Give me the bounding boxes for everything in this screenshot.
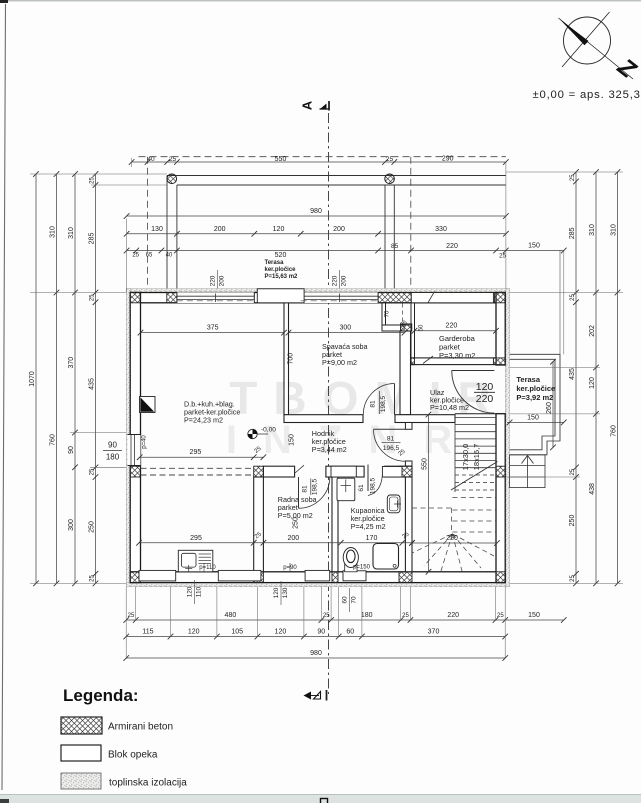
- concrete block south wall pier kup-west: [332, 572, 338, 583]
- svg-text:40: 40: [147, 156, 155, 163]
- dashed line across window W1: [177, 300, 254, 302]
- concrete block kupaonica NE pier: [399, 466, 412, 477]
- concrete block NW corner: [130, 293, 140, 303]
- door kupaonica (61/198,5): [368, 465, 382, 496]
- svg-text:180: 180: [361, 612, 373, 619]
- svg-text:17x30,0: 17x30,0: [461, 444, 470, 471]
- window south S4 (kupaonica 60/70): [343, 571, 366, 581]
- svg-text:1070: 1070: [29, 371, 36, 387]
- svg-text:105: 105: [231, 629, 243, 636]
- svg-text:120: 120: [187, 586, 194, 597]
- svg-text:198,5: 198,5: [370, 477, 377, 494]
- svg-text:700: 700: [288, 353, 295, 365]
- svg-text:220: 220: [446, 243, 458, 250]
- section marker A bottom: [304, 690, 327, 701]
- svg-text:Terasa: Terasa: [516, 375, 540, 384]
- svg-text:480: 480: [225, 612, 237, 619]
- svg-text:Armirani beton: Armirani beton: [108, 722, 173, 733]
- dim row rowA bottom: [123, 612, 540, 623]
- bottom small square mark: [321, 799, 328, 803]
- svg-text:120: 120: [273, 587, 280, 598]
- insulation south band: [126, 583, 509, 587]
- svg-text:p=40: p=40: [142, 435, 148, 449]
- svg-text:120: 120: [275, 629, 287, 636]
- column C1: [167, 174, 177, 184]
- door hodnik-ulaz (81/196,5): [374, 429, 406, 461]
- window north W2 (220/200): [301, 292, 378, 303]
- svg-text:220: 220: [447, 612, 459, 619]
- dashed opening D.b./radna: [141, 467, 254, 469]
- svg-text:310: 310: [589, 224, 596, 236]
- dim row row4 detail: [124, 243, 567, 260]
- svg-text:980: 980: [310, 650, 322, 657]
- dim line left 310-760: [49, 171, 59, 586]
- insulation east band: [505, 289, 509, 587]
- svg-text:61: 61: [358, 484, 365, 492]
- insulation north band: [126, 289, 509, 293]
- svg-text:198,5: 198,5: [312, 478, 319, 495]
- svg-text:980: 980: [310, 208, 322, 215]
- svg-text:550: 550: [275, 156, 287, 163]
- svg-text:370: 370: [68, 357, 75, 369]
- dim row rowC 980: [123, 650, 508, 661]
- WC toilet: [343, 548, 358, 572]
- svg-text:81: 81: [370, 400, 377, 408]
- hodnik wall white box 1: [331, 466, 356, 477]
- steps up arrow: [522, 456, 534, 464]
- west wall: [130, 293, 140, 583]
- svg-text:120: 120: [273, 226, 285, 233]
- svg-text:25: 25: [386, 156, 394, 163]
- svg-text:18x16,7: 18x16,7: [472, 444, 481, 471]
- svg-text:435: 435: [88, 378, 95, 390]
- dim row 375 spavaca-db: [138, 325, 287, 336]
- concrete block south wall pier kup-east: [399, 572, 412, 583]
- svg-text:150: 150: [527, 415, 539, 422]
- concrete block niche pier: [401, 324, 412, 331]
- svg-text:25: 25: [89, 177, 95, 184]
- svg-text:A: A: [300, 100, 315, 110]
- svg-text:370: 370: [428, 629, 440, 636]
- svg-text:toplinska izolacija: toplinska izolacija: [109, 778, 187, 789]
- svg-text:550: 550: [421, 458, 428, 470]
- svg-text:300: 300: [68, 519, 75, 531]
- window south S2: [218, 570, 261, 581]
- page top edge line: [0, 0, 641, 2]
- section axis line A-A: [328, 113, 330, 694]
- door radna soba (81/198,5): [295, 465, 330, 508]
- wall stub niche west: [382, 303, 386, 325]
- wall garderoba south: [411, 358, 496, 365]
- east terrace outline: [510, 354, 560, 455]
- svg-text:60: 60: [342, 596, 349, 604]
- wall hodnik east upper: [405, 423, 412, 430]
- svg-text:170: 170: [366, 535, 378, 542]
- svg-text:196,5: 196,5: [383, 445, 400, 452]
- dim row row1 terrace: [129, 156, 509, 165]
- kitchen counter with sink: [178, 550, 213, 572]
- svg-text:±0,00 = aps. 325,30: ±0,00 = aps. 325,30: [533, 89, 641, 101]
- svg-text:Terasa: Terasa: [265, 260, 285, 266]
- concrete block radna west wall head: [254, 466, 264, 477]
- wall hodnik north, east part: [395, 415, 455, 423]
- hodnik wall white box 2 (bath cabinet): [382, 467, 402, 478]
- dim row db 295: [137, 449, 266, 460]
- svg-text:150: 150: [289, 434, 296, 446]
- svg-text:25: 25: [323, 613, 330, 619]
- svg-text:115: 115: [142, 629, 153, 636]
- svg-text:375: 375: [207, 325, 219, 332]
- north wall white block garderoba: [411, 293, 493, 303]
- svg-text:70: 70: [385, 310, 391, 317]
- svg-text:90: 90: [68, 446, 75, 454]
- svg-text:81: 81: [387, 436, 395, 443]
- north wall: [130, 293, 505, 303]
- elevation marker +-0,00: [248, 429, 268, 438]
- niche dashed shelf: [401, 304, 403, 325]
- east wall lower: [496, 414, 505, 583]
- svg-text:ker.pločice: ker.pločice: [516, 384, 555, 393]
- wall hodnik east lower: [405, 461, 412, 466]
- svg-text:P=9,00 m2: P=9,00 m2: [322, 358, 357, 367]
- svg-text:25: 25: [402, 613, 409, 619]
- svg-text:220: 220: [210, 275, 217, 286]
- svg-text:120: 120: [589, 377, 596, 389]
- east terrace dim 150: [507, 421, 564, 423]
- winder stairs dashed fan: [412, 498, 496, 572]
- insulation west band: [126, 289, 130, 587]
- svg-text:250: 250: [569, 515, 576, 527]
- page left edge line: [2, 4, 6, 790]
- svg-text:25: 25: [89, 575, 95, 582]
- svg-text:200: 200: [287, 535, 299, 542]
- svg-text:P=3,44 m2: P=3,44 m2: [312, 445, 347, 454]
- legend blok opeka swatch: [61, 745, 101, 761]
- concrete block east wall stair pier: [496, 466, 505, 477]
- svg-text:25: 25: [570, 575, 576, 582]
- washbasin / washing machine: [337, 478, 355, 501]
- svg-text:P=4,25 m2: P=4,25 m2: [351, 522, 386, 531]
- column left support lines: [166, 176, 168, 293]
- extension lines: [30, 158, 623, 658]
- legend toplinska izolacija swatch: [61, 773, 101, 789]
- dim line stair 550: [421, 412, 431, 575]
- svg-text:295: 295: [190, 449, 202, 456]
- wall hodnik north / spavaca south, west part: [284, 415, 363, 423]
- terrace dashed west edge: [147, 157, 149, 293]
- svg-text:202: 202: [589, 325, 596, 337]
- svg-text:310: 310: [610, 224, 617, 236]
- dim row 300 spavaca: [286, 325, 408, 336]
- svg-text:25: 25: [570, 174, 576, 181]
- dim row south inner row: [136, 535, 415, 546]
- concrete block NE corner: [495, 293, 506, 303]
- east wall upper: [496, 293, 505, 366]
- exterior steps east: [510, 455, 545, 488]
- svg-text:50: 50: [418, 324, 424, 331]
- svg-text:P=3,92 m2: P=3,92 m2: [516, 393, 553, 402]
- wall radna/kupaonica: [332, 477, 338, 572]
- concrete block garderoba wall east pier: [493, 358, 505, 365]
- svg-text:P=24,23 m2: P=24,23 m2: [184, 416, 223, 425]
- concrete block south wall pier radna: [254, 572, 264, 583]
- svg-text:P=10,48 m2: P=10,48 m2: [430, 403, 469, 412]
- dim line right 25-285...: [569, 169, 579, 586]
- dim line right 310-760: [610, 169, 620, 586]
- svg-text:25: 25: [89, 468, 95, 475]
- svg-text:200: 200: [219, 275, 226, 286]
- wall kupaonica east: [405, 477, 412, 572]
- window west (90/180): [128, 435, 141, 466]
- bath small sink: [387, 495, 401, 513]
- concrete block north wall pier 2: [378, 293, 412, 303]
- wall D.b./Spavaca (700): [284, 303, 289, 415]
- svg-text:Blok opeka: Blok opeka: [108, 750, 158, 761]
- svg-text:60: 60: [346, 629, 354, 636]
- svg-text:520: 520: [275, 252, 287, 259]
- svg-text:220: 220: [446, 535, 458, 542]
- dim line left 1070: [29, 171, 39, 586]
- svg-text:310: 310: [49, 226, 56, 238]
- svg-text:25: 25: [89, 294, 95, 301]
- front door (120/220): [423, 356, 494, 413]
- page top-left corner mark: [0, 0, 8, 3]
- svg-text:200: 200: [333, 226, 345, 233]
- svg-text:p=90: p=90: [283, 565, 297, 571]
- south wall: [130, 572, 505, 583]
- svg-text:25: 25: [169, 156, 177, 163]
- dim row stair 220: [409, 535, 500, 546]
- north arrow needle: [560, 19, 589, 45]
- east terrace dim 260: [552, 362, 554, 448]
- svg-text:25: 25: [499, 254, 506, 260]
- svg-text:p=110: p=110: [199, 565, 216, 571]
- svg-text:180: 180: [106, 453, 120, 462]
- bottom-left corner mark: [0, 799, 9, 803]
- svg-text:p=150: p=150: [353, 565, 371, 571]
- section marker A top: [300, 100, 330, 110]
- door spavaca soba (81/198,5): [363, 384, 394, 415]
- terrace slab edge lines: [167, 175, 506, 177]
- svg-text:120: 120: [476, 381, 494, 393]
- svg-text:85: 85: [391, 243, 399, 250]
- shower: [373, 544, 399, 570]
- concrete block garderoba wall corner: [411, 358, 415, 365]
- svg-text:310: 310: [68, 227, 75, 239]
- wall niche marker triangle: [140, 397, 156, 413]
- svg-text:70: 70: [351, 596, 358, 604]
- dim line left 25-285-...: [88, 171, 98, 586]
- page bottom scanner strip: [0, 795, 641, 803]
- svg-text:Legenda:: Legenda:: [63, 686, 139, 705]
- wall hodnik south seg3: [385, 466, 412, 477]
- svg-text:760: 760: [49, 434, 56, 446]
- svg-text:760: 760: [610, 425, 617, 437]
- dim line right 310-202-120-438: [589, 169, 599, 586]
- svg-text:P=15,63 m2: P=15,63 m2: [265, 274, 299, 280]
- svg-text:65: 65: [146, 253, 153, 259]
- terrace dashed north edge: [139, 156, 506, 158]
- window south S3: [305, 570, 330, 581]
- wall D.b./radna soba: [254, 477, 264, 572]
- svg-text:25: 25: [570, 468, 576, 475]
- column C2: [385, 174, 395, 184]
- concrete block west wall pier at hodnik wall: [130, 466, 140, 477]
- svg-text:260: 260: [546, 402, 553, 414]
- window north W1 (220/200): [177, 292, 254, 303]
- north arrow symbol: [559, 12, 634, 79]
- svg-text:130: 130: [151, 226, 163, 233]
- dim row row3 windows: [124, 226, 509, 237]
- svg-text:25: 25: [132, 253, 139, 259]
- concrete block SW corner: [130, 572, 140, 583]
- svg-text:295: 295: [190, 535, 202, 542]
- svg-text:300: 300: [339, 325, 351, 332]
- wall hodnik south seg1: [263, 466, 294, 477]
- niche bottom wall: [382, 325, 415, 331]
- svg-text:25: 25: [128, 613, 135, 619]
- svg-text:198,5: 198,5: [380, 395, 387, 412]
- svg-text:220: 220: [446, 323, 458, 330]
- svg-text:90: 90: [108, 440, 117, 449]
- svg-text:438: 438: [589, 483, 596, 495]
- dim line left 310-370-90-300: [68, 171, 78, 586]
- svg-text:150: 150: [528, 612, 540, 619]
- window south S1: [139, 570, 176, 581]
- north wall white block (opeka 120): [257, 289, 304, 303]
- svg-text:25: 25: [570, 294, 576, 301]
- svg-text:90: 90: [317, 629, 325, 636]
- svg-text:220: 220: [476, 393, 494, 405]
- svg-text:200: 200: [214, 226, 226, 233]
- dashed line across window W2: [301, 300, 378, 302]
- ext edge line to dim: [559, 251, 561, 355]
- svg-text:130: 130: [282, 587, 289, 598]
- legend armirani beton swatch: [61, 717, 102, 734]
- column right support lines: [384, 185, 386, 293]
- staircase: [451, 414, 498, 492]
- svg-text:200: 200: [341, 275, 348, 286]
- svg-text:120: 120: [188, 629, 200, 636]
- concrete block SE corner: [496, 572, 505, 583]
- svg-text:285: 285: [569, 227, 576, 239]
- dim row rowB bottom: [123, 629, 508, 640]
- svg-text:40: 40: [166, 253, 173, 259]
- svg-text:220: 220: [332, 275, 339, 286]
- svg-text:110: 110: [196, 586, 203, 597]
- wall spavaca/ulaz: [400, 331, 411, 415]
- svg-text:P=3,30 m2: P=3,30 m2: [439, 351, 475, 360]
- dim row garderoba 220: [412, 323, 499, 334]
- svg-text:435: 435: [569, 368, 576, 380]
- wall hodnik south seg2: [326, 466, 364, 477]
- svg-text:ker.pločice: ker.pločice: [265, 267, 297, 273]
- svg-text:25: 25: [497, 613, 504, 619]
- svg-text:81: 81: [302, 485, 309, 493]
- dim row row2 980: [124, 208, 509, 219]
- svg-text:290: 290: [442, 156, 454, 163]
- svg-text:285: 285: [88, 233, 95, 245]
- svg-text:150: 150: [528, 243, 540, 250]
- svg-text:250: 250: [88, 521, 95, 533]
- svg-text:-0,00: -0,00: [261, 427, 276, 434]
- wall garderoba west: [411, 303, 415, 365]
- terrace dashed east edge: [410, 157, 412, 288]
- svg-text:330: 330: [435, 226, 447, 233]
- concrete block north wall pier: [167, 293, 181, 303]
- svg-text:P=5,00 m2: P=5,00 m2: [278, 511, 313, 520]
